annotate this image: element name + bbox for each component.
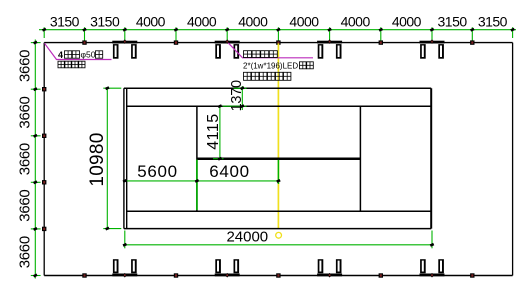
dim 6400 line [197,180,279,182]
note pole phi50 [81,50,96,60]
svg-text:3660: 3660 [16,50,33,82]
dim 24000 ticks [123,243,435,247]
svg-text:4000: 4000 [187,14,217,30]
court singles sideline bottom [126,210,431,212]
leader line pole note [45,43,112,59]
svg-text:3150: 3150 [478,14,508,30]
pole left 3 [42,180,46,184]
pole left 4 [42,227,46,231]
note pole text line2 [58,61,85,68]
fence bottom edge [44,275,512,277]
LED fixture bottom 2 [215,259,240,277]
svg-text:24000: 24000 [226,229,268,246]
pole top 2 [174,40,178,44]
pole top 5 [470,40,474,44]
svg-text:6400: 6400 [209,162,250,181]
pole top 1 [82,40,86,44]
svg-text:5600: 5600 [137,162,178,181]
dim 1370 ticks [240,86,245,108]
fence left edge [43,43,45,276]
left dimension line [34,40,36,279]
LED fixture bottom 3 [317,259,342,277]
dim 1370 extensions [223,88,247,106]
fence top edge [44,42,512,44]
svg-text:3660: 3660 [16,236,33,268]
pole top 3 [276,40,280,44]
dim 4115 extensions [213,158,224,160]
court baseline left inner [126,88,128,228]
left dimension extension lines [31,43,41,276]
LED fixture bottom 1 [112,259,137,277]
court singles sideline top [126,105,431,107]
pole bottom 5 [470,273,474,277]
svg-text:3150: 3150 [50,14,80,30]
top dimension extension lines [44,27,512,40]
top dimension ticks [42,28,515,32]
svg-text:4000: 4000 [392,14,422,30]
pole left 1 [42,87,46,91]
svg-text:3150: 3150 [438,14,468,30]
net line end circle [276,232,282,238]
pole bottom 3 [276,273,280,277]
note luminaire brand [244,51,278,58]
court baseline right [430,88,432,228]
dim 4115 line [219,106,221,159]
LED fixture top 4 [420,39,445,58]
svg-text:1370: 1370 [229,80,245,111]
pole left 2 [42,134,46,138]
svg-text:3150: 3150 [90,14,120,30]
dim 10980 extensions [103,88,121,228]
fence right edge [512,43,514,276]
top dimension labels [50,14,508,30]
left dimension ticks [33,41,38,278]
svg-text:4000: 4000 [136,14,166,30]
dim 10980 line [106,88,108,228]
svg-text:φ50: φ50 [81,50,96,60]
LED fixture top 3 [317,39,342,58]
top dimension line [39,29,516,31]
dim 5600/6400 extensions [197,160,279,210]
dim 5600/6400 ticks [123,179,281,183]
service line left [196,106,198,211]
court baseline left outer [123,88,125,228]
dim 5600 line [125,180,197,182]
pole bottom 4 [379,273,383,277]
svg-text:4: 4 [58,50,63,60]
court sideline bottom (doubles) [124,228,431,230]
service line right [359,106,361,211]
LED fixture top 2 [215,39,240,58]
note luminaire spec [243,62,298,71]
svg-text:4115: 4115 [205,113,222,149]
LED fixture top 1 [112,39,137,58]
svg-text:3660: 3660 [16,143,33,175]
net line (yellow) [277,43,279,228]
svg-text:2*(1w*196)LED: 2*(1w*196)LED [243,62,298,71]
dim 10980 ticks [105,86,110,230]
dim 24000 extensions [125,231,432,249]
svg-text:4000: 4000 [289,14,319,30]
svg-text:4000: 4000 [238,14,268,30]
svg-text:10980: 10980 [87,132,108,186]
dim 4115 ticks [218,104,223,160]
note pole text line1 [58,50,63,60]
pole bottom 1 [82,273,86,277]
dim 24000 line [125,244,432,246]
pole top 4 [379,40,383,44]
left dimension labels [16,50,33,268]
svg-text:4000: 4000 [341,14,371,30]
LED fixture bottom 4 [420,259,445,277]
svg-text:3660: 3660 [16,96,33,128]
note luminaire usage [244,72,291,80]
dim 1370 line [241,86,243,110]
svg-text:3660: 3660 [16,190,33,222]
leader line luminaire note [228,43,313,58]
pole bottom 2 [174,273,178,277]
court sideline top (doubles) [124,87,431,89]
center service line [197,157,361,160]
